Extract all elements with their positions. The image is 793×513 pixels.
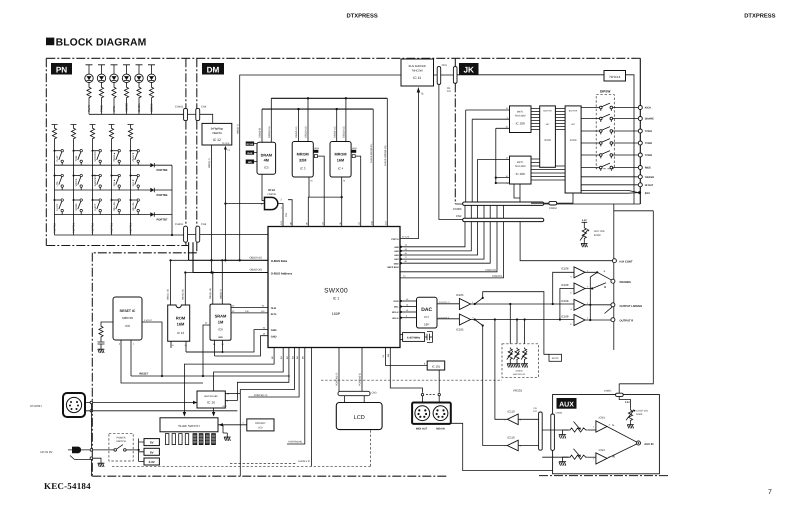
DM board label xyxy=(202,63,224,75)
svg-text:ACC VOL: ACC VOL xyxy=(594,230,606,233)
svg-text:CN303: CN303 xyxy=(453,207,462,211)
LED D2 TRIG with resistor xyxy=(98,65,105,74)
matrix row bus 1 xyxy=(55,164,151,166)
svg-text:BHT451A89: BHT451A89 xyxy=(204,395,218,398)
wire CH4 to IC12 xyxy=(200,114,213,123)
trigger input jack SNARE xyxy=(638,117,642,121)
matrix column PORTB3 resistor xyxy=(109,125,115,128)
phones jack switching xyxy=(585,272,612,288)
switch SW1 PLAY xyxy=(54,150,56,152)
bus verticals into DRAM/MROM xyxy=(262,98,346,142)
svg-text:MASTER VR: MASTER VR xyxy=(513,373,526,376)
svg-text:SEL▼: SEL▼ xyxy=(132,179,135,186)
svg-text:74HC14: 74HC14 xyxy=(609,75,621,79)
svg-text:DIPSW: DIPSW xyxy=(600,90,610,94)
aux level resistor L with ground xyxy=(542,429,568,431)
pin AN3 xyxy=(400,258,403,261)
L signal line xyxy=(471,303,574,305)
svg-text:74HC540: 74HC540 xyxy=(412,69,424,72)
svg-text:GND: GND xyxy=(394,262,399,265)
svg-text:OBA(0-9): OBA(0-9) xyxy=(259,128,262,138)
svg-text:DTXPRESS: DTXPRESS xyxy=(744,12,775,19)
MROM output-enable wires to SWX00 xyxy=(308,177,341,227)
svg-text:MROM: MROM xyxy=(334,153,346,157)
O-BUS junction dots xyxy=(210,259,212,261)
taps to VR101 xyxy=(510,304,524,344)
jack switch contacts after IC105 xyxy=(475,292,549,355)
svg-text:IC110: IC110 xyxy=(507,436,515,440)
svg-text:16M: 16M xyxy=(177,322,185,327)
bus junction dots xyxy=(307,97,309,99)
svg-text:OBA(0-14): OBA(0-14) xyxy=(295,126,298,138)
regulator 5V xyxy=(144,439,159,446)
DIPSW switch 6 xyxy=(581,167,638,169)
svg-text:MROM: MROM xyxy=(297,153,309,157)
DRAM 4M IC5 xyxy=(257,142,276,174)
svg-text:OBD(1-15): OBD(1-15) xyxy=(167,289,170,300)
jumper pins below slide switch xyxy=(166,434,169,445)
ROM 16M IC13 xyxy=(168,305,190,341)
svg-text:OBD(0-7): OBD(0-7) xyxy=(220,289,223,299)
svg-text:5V: 5V xyxy=(150,441,154,445)
svg-text:START/S: START/S xyxy=(94,151,97,162)
BLOCK DIAGRAM heading xyxy=(46,38,54,46)
svg-text:GND: GND xyxy=(271,335,277,338)
trigger input 9/10 stereo pair xyxy=(581,190,639,193)
svg-text:CN802: CN802 xyxy=(604,389,612,392)
svg-text:PORTB5: PORTB5 xyxy=(157,169,168,172)
JK board outline right edge with jacks xyxy=(639,58,641,204)
multiplexer IC209 (upper) xyxy=(510,106,532,133)
svg-text:202: 202 xyxy=(447,90,452,93)
LED D6 SONG with resistor xyxy=(148,65,155,74)
svg-text:OBD(0-15): OBD(0-15) xyxy=(305,126,308,138)
svg-text:BLOCK DIAGRAM: BLOCK DIAGRAM xyxy=(56,37,147,48)
svg-text:6.4576MHz: 6.4576MHz xyxy=(407,337,421,340)
bus buffer IC11 xyxy=(401,59,434,86)
trigger input jack CRASH xyxy=(581,176,638,178)
tap to AUX IC110 (R) xyxy=(495,320,507,420)
regulator 5V (2) xyxy=(144,448,159,455)
DC IN 9V plug xyxy=(72,447,81,454)
connector CH401 (PN, top) xyxy=(184,108,188,120)
LED D1 PLAY with resistor xyxy=(86,65,93,74)
trigger input jack RIDE xyxy=(638,166,642,170)
O-BUS Address wire xyxy=(193,242,268,272)
pin AN6 xyxy=(400,245,403,248)
svg-text:PORTB(2-4): PORTB(2-4) xyxy=(254,394,267,397)
wire DRAM to AND gate xyxy=(262,174,265,200)
svg-text:PO/T-S: PO/T-S xyxy=(391,238,399,241)
board outline chain top (PN/DM/JK) xyxy=(46,57,640,59)
wire IC12 clock T1 to AND gate and O-BUS xyxy=(225,149,264,260)
svg-text:IC 13: IC 13 xyxy=(177,331,185,335)
svg-text:SRAM: SRAM xyxy=(215,314,227,319)
output R wire xyxy=(585,319,611,321)
svg-text:DTXPRESS: DTXPRESS xyxy=(347,12,378,19)
svg-text:SHIFT: SHIFT xyxy=(94,203,97,211)
memory address bus (upper) xyxy=(271,97,387,99)
MUTE block xyxy=(549,354,562,361)
wire CN1 down to CN303 xyxy=(439,84,463,219)
rotary encoder IC9 xyxy=(247,419,274,431)
reset IC M80790 IC8 xyxy=(113,297,142,340)
POWER SWITCH xyxy=(109,433,133,461)
svg-text:PORTB3: PORTB3 xyxy=(111,222,114,233)
svg-text:CN2: CN2 xyxy=(456,214,462,218)
IC209 input wires from CN303 xyxy=(466,110,510,202)
svg-text:B 50K: B 50K xyxy=(636,413,643,416)
master volume VR101 xyxy=(502,344,539,378)
svg-text:OBA(0-14): OBA(0-14) xyxy=(333,126,336,138)
wire IC11 output down to SWX00 pin with arrow xyxy=(400,92,418,239)
svg-text:IC9: IC9 xyxy=(258,426,263,429)
svg-text:BUFFER: BUFFER xyxy=(569,109,578,112)
DIPSW switch 5 xyxy=(581,154,638,156)
trigger input jack KICK xyxy=(638,106,642,110)
vertical service wire xyxy=(90,404,92,449)
svg-text:S-W/M-V R: S-W/M-V R xyxy=(298,460,310,463)
svg-text:CRASH: CRASH xyxy=(645,176,654,179)
switch SW13 SHIFT xyxy=(92,199,94,201)
DM board outline bottom xyxy=(92,475,448,477)
svg-text:IC 1: IC 1 xyxy=(333,297,340,301)
aux level resistor R with ground xyxy=(542,456,568,458)
svg-text:DRAM: DRAM xyxy=(261,153,272,157)
svg-text:TO HOST: TO HOST xyxy=(30,404,43,408)
svg-text:32M: 32M xyxy=(299,158,306,162)
svg-text:IC7: IC7 xyxy=(424,315,429,319)
wire IC12 to O-BUS verticals xyxy=(211,145,213,273)
svg-text:3.3V: 3.3V xyxy=(582,219,587,222)
switch SW5 PAGE&#9660; xyxy=(130,150,132,152)
switch SW12 SONG xyxy=(73,199,75,201)
power section dashed boundary xyxy=(112,430,371,467)
switch SW11 CLICK xyxy=(54,199,56,201)
svg-text:BUFFER: BUFFER xyxy=(543,109,552,112)
trimmer 524.6 xyxy=(523,348,527,361)
svg-text:JK: JK xyxy=(463,65,474,74)
svg-text:3.3V: 3.3V xyxy=(149,460,155,464)
svg-text:IC105: IC105 xyxy=(456,293,464,297)
svg-text:MX/TL: MX/TL xyxy=(517,161,524,164)
svg-text:PORTB6: PORTB6 xyxy=(157,194,168,197)
svg-text:RIDE: RIDE xyxy=(645,167,651,170)
svg-text:SEL▲: SEL▲ xyxy=(113,179,116,186)
PN board label xyxy=(51,63,72,75)
pin AN4 xyxy=(400,254,403,257)
connector CN601 xyxy=(551,414,555,450)
trimmer 517 xyxy=(515,348,519,361)
AUX label xyxy=(557,398,577,409)
svg-text:N: N xyxy=(343,180,345,183)
svg-text:IC108: IC108 xyxy=(561,267,569,271)
MROM32 chip-select stub xyxy=(314,150,319,153)
memory data bus (lower) xyxy=(262,108,373,110)
svg-text:DOL: DOL xyxy=(394,306,399,309)
svg-text:O-BUS Address: O-BUS Address xyxy=(271,272,293,276)
LED D4 VOICE with resistor xyxy=(123,65,130,74)
diode row 2 xyxy=(150,188,154,192)
svg-text:PLAY: PLAY xyxy=(87,105,91,112)
PHONES jack xyxy=(611,279,615,283)
svg-text:RCAS: RCAS xyxy=(247,143,254,146)
svg-text:IC 209: IC 209 xyxy=(516,172,525,176)
svg-text:OBD(0-15): OBD(0-15) xyxy=(249,256,262,259)
svg-text:IC14: IC14 xyxy=(268,188,275,192)
svg-text:R: R xyxy=(604,286,606,289)
svg-text:SONG: SONG xyxy=(75,203,78,210)
TO HOST wires xyxy=(85,403,237,411)
svg-text:IC5: IC5 xyxy=(264,166,269,170)
svg-text:74HC4052: 74HC4052 xyxy=(515,165,527,168)
svg-text:SWITCH: SWITCH xyxy=(116,440,126,443)
svg-text:IC 101: IC 101 xyxy=(432,364,441,368)
JK board label xyxy=(459,63,479,75)
matrix row bus 3 xyxy=(55,214,151,216)
DRAM control stubs RAS/CAS/WE xyxy=(246,142,254,146)
switch SW14 VALUE+ xyxy=(111,199,113,201)
wire from output section to CN802 and click pot xyxy=(614,211,654,409)
svg-text:ROM: ROM xyxy=(352,147,357,150)
svg-text:SNARE: SNARE xyxy=(645,118,654,121)
PORTC0 / PORTC1 wires xyxy=(400,205,504,278)
JK board outline bottom xyxy=(455,203,640,205)
svg-text:TOM1: TOM1 xyxy=(645,130,653,133)
svg-text:SLIDE SWITCH: SLIDE SWITCH xyxy=(178,424,199,428)
svg-text:IC 3: IC 3 xyxy=(300,166,306,170)
LED D5 CLICK with resistor xyxy=(136,65,143,74)
connector CN202 xyxy=(453,67,457,84)
svg-text:SWX00: SWX00 xyxy=(324,287,348,294)
svg-text:IC 209: IC 209 xyxy=(516,122,525,126)
IC209 bottom wires to CN304 xyxy=(514,184,520,202)
svg-text:SONG: SONG xyxy=(150,103,154,112)
svg-text:TRIG: TRIG xyxy=(75,156,78,162)
svg-text:AN4: AN4 xyxy=(394,254,399,257)
svg-text:VOICE: VOICE xyxy=(75,178,78,186)
bus drops to SWX00 S-BUS pins xyxy=(373,98,387,226)
svg-text:IC105: IC105 xyxy=(456,328,464,332)
trigger input jack TOM3 xyxy=(638,153,642,157)
svg-text:S-BUS DATA(0-15): S-BUS DATA(0-15) xyxy=(384,145,387,166)
H.H CONT jack xyxy=(520,204,614,350)
SRAM bottom pin wires xyxy=(186,340,223,356)
svg-text:IC8: IC8 xyxy=(125,324,130,328)
switch SW10 SEL&#9660; xyxy=(130,175,132,177)
svg-text:PORTA(0-2): PORTA(0-2) xyxy=(358,373,361,386)
svg-text:PORTB(4-B): PORTB(4-B) xyxy=(289,441,303,444)
wires between buffers xyxy=(555,109,565,130)
crystal 6.4576MHz xyxy=(400,335,403,340)
svg-text:IC501: IC501 xyxy=(599,417,606,420)
svg-text:B 50K: B 50K xyxy=(594,234,601,237)
PN board outline left/bottom/right xyxy=(46,58,188,245)
/RESET wire xyxy=(131,375,290,377)
svg-text:SAVE/ENT: SAVE/ENT xyxy=(94,174,97,187)
AND gate output to SWX00 xyxy=(278,200,292,227)
service wire loop right of MIDI xyxy=(451,423,553,470)
R signal line xyxy=(471,319,574,321)
DIPSW switch 1 xyxy=(581,107,638,109)
O-BUS drops to ROM xyxy=(171,260,186,305)
connector CN102 xyxy=(539,412,543,450)
svg-text:PLAY: PLAY xyxy=(56,155,59,162)
connector CH401 (PN, bottom) xyxy=(184,226,188,242)
svg-text:3.3V: 3.3V xyxy=(625,401,630,404)
JK board outline left xyxy=(454,58,456,204)
svg-text:PORTB1: PORTB1 xyxy=(73,222,76,233)
connector CN802 xyxy=(616,393,624,396)
svg-text:MIDI OUT: MIDI OUT xyxy=(416,427,428,430)
OUTPUT R jack xyxy=(611,318,615,322)
svg-text:3 VOUT: 3 VOUT xyxy=(144,319,153,322)
svg-text:AUX IN: AUX IN xyxy=(644,443,653,446)
svg-text:A 50KΩ: A 50KΩ xyxy=(515,370,523,373)
svg-text:OBD(0-15): OBD(0-15) xyxy=(268,126,271,138)
AUX IN jack xyxy=(636,441,640,445)
reset RC network xyxy=(101,322,113,325)
svg-text:VALUE-: VALUE- xyxy=(132,202,135,211)
svg-text:O-BUS Data: O-BUS Data xyxy=(271,259,288,263)
svg-text:H.H CONT: H.H CONT xyxy=(620,261,633,264)
svg-text:UTIL: UTIL xyxy=(56,180,59,186)
svg-text:MX/TL: MX/TL xyxy=(517,111,524,114)
svg-text:PN: PN xyxy=(56,65,67,74)
svg-text:OUTPUT L/MONO: OUTPUT L/MONO xyxy=(620,305,643,308)
trigger input jack TOM1 xyxy=(638,129,642,133)
op-amp IC105 (R) xyxy=(459,314,470,325)
MROM 16M IC4 xyxy=(330,142,351,178)
DAC data pins xyxy=(400,300,403,303)
svg-text:IC208: IC208 xyxy=(570,139,577,142)
connector CN3 xyxy=(338,391,370,395)
svg-text:M80790: M80790 xyxy=(122,316,133,320)
multiplexer IC209 (lower) xyxy=(510,156,532,184)
LED bus wire to CH401 xyxy=(89,113,184,115)
OUTPUT L/MONO jack xyxy=(611,303,615,307)
svg-text:D-FlipFlop: D-FlipFlop xyxy=(211,128,224,131)
regulator 3.3V xyxy=(144,458,159,465)
trigger input jack HI HAT xyxy=(581,184,638,186)
svg-text:CLICK VOL: CLICK VOL xyxy=(636,409,649,412)
matrix column PORTB1 resistor xyxy=(71,125,77,128)
svg-text:CH401: CH401 xyxy=(175,223,184,226)
ROM bottom pin wires xyxy=(171,341,186,352)
connector CN1 xyxy=(437,67,441,85)
MROM16 chip-select stub xyxy=(351,150,356,153)
svg-text:ROM: ROM xyxy=(176,316,186,321)
main LSI SWX00 IC1 xyxy=(268,227,400,348)
svg-text:DAC: DAC xyxy=(421,307,432,313)
svg-text:CN1: CN1 xyxy=(442,64,448,67)
connector CH4 (DM, top) xyxy=(196,108,200,120)
connector CN303 xyxy=(463,202,544,205)
svg-text:MUTE: MUTE xyxy=(552,357,559,360)
svg-text:PAGE▼: PAGE▼ xyxy=(132,152,135,161)
DAC out wires xyxy=(437,304,459,319)
LCD module xyxy=(345,396,365,403)
jack board chain bottom right xyxy=(539,475,669,477)
svg-text:DOO: DOO xyxy=(394,300,399,303)
svg-text:IC205: IC205 xyxy=(544,139,551,142)
trigger input jack TOM2 xyxy=(638,141,642,145)
diode row 3 xyxy=(150,212,154,216)
svg-text:RESET IC: RESET IC xyxy=(120,309,136,313)
matrix row bus 2 xyxy=(55,189,151,191)
svg-text:PORTB4: PORTB4 xyxy=(130,222,133,233)
svg-text:WE: WE xyxy=(248,161,252,164)
svg-text:/RESET: /RESET xyxy=(139,373,149,376)
svg-text:16M: 16M xyxy=(337,158,344,162)
DM board outline left edge and jog to power area xyxy=(92,58,197,476)
svg-text:1M: 1M xyxy=(218,320,224,325)
SLIDE SWITCH xyxy=(160,418,218,432)
svg-text:VOICE: VOICE xyxy=(125,103,129,112)
switch SW8 SAVE/ENT xyxy=(92,175,94,177)
svg-text:GND: GND xyxy=(271,329,277,332)
svg-text:PORTB0: PORTB0 xyxy=(54,222,57,233)
option dashed line to VR101 xyxy=(321,379,502,381)
switch SW3 START/S xyxy=(92,150,94,152)
svg-text:OBD(0-7): OBD(0-7) xyxy=(237,124,240,134)
svg-text:OUTPUT R: OUTPUT R xyxy=(620,320,634,323)
MROM 32M IC3 xyxy=(292,142,313,178)
svg-text:IC110: IC110 xyxy=(507,409,515,413)
svg-text:OBA(0-14): OBA(0-14) xyxy=(209,288,212,299)
svg-text:7: 7 xyxy=(768,489,772,496)
matrix column PORTB4 resistor xyxy=(128,125,134,128)
svg-text:PAGE▲: PAGE▲ xyxy=(113,152,116,161)
svg-text:CH4: CH4 xyxy=(201,223,207,226)
svg-text:HI HAT: HI HAT xyxy=(645,184,654,187)
svg-text:IC 11: IC 11 xyxy=(413,76,421,80)
svg-text:TRIG: TRIG xyxy=(100,104,104,112)
svg-text:IC108: IC108 xyxy=(561,299,569,303)
svg-text:74HC4052: 74HC4052 xyxy=(515,115,527,118)
svg-text:OBA(0-20): OBA(0-20) xyxy=(250,269,263,272)
svg-text:IC 10: IC 10 xyxy=(207,401,215,405)
SRAM interface wires CLB/FLTs xyxy=(228,308,268,313)
IC101 midi driver xyxy=(427,361,445,370)
svg-text:REFP EGH: REFP EGH xyxy=(387,266,399,269)
svg-text:PHONES: PHONES xyxy=(620,281,632,284)
output L wire xyxy=(585,305,612,314)
resistor network buffer IC208 xyxy=(565,106,581,193)
svg-text:N: N xyxy=(311,180,313,183)
svg-text:ROM: ROM xyxy=(314,147,319,150)
svg-text:AN6: AN6 xyxy=(394,246,399,249)
serial driver IC10 xyxy=(197,391,225,408)
svg-text:PORTC0: PORTC0 xyxy=(486,269,497,272)
svg-text:IC108: IC108 xyxy=(561,283,569,287)
AND gate IC14 74HC08 xyxy=(265,197,278,209)
switch SW4 PAGE&#9650; xyxy=(111,150,113,152)
svg-text:BCLK: BCLK xyxy=(393,317,399,320)
TO HOST connector xyxy=(63,393,85,417)
svg-text:IC108: IC108 xyxy=(561,314,569,318)
DIPSW switch 4 xyxy=(581,142,638,144)
matrix column PORTB2 resistor xyxy=(90,125,96,128)
pin GND xyxy=(400,262,403,265)
svg-text:IC501: IC501 xyxy=(599,449,606,452)
LED D3 UTIL with resistor xyxy=(111,65,118,74)
connector CH4 (DM, bottom) xyxy=(196,226,200,242)
trimmer 510.3 xyxy=(508,348,512,361)
svg-text:AN5: AN5 xyxy=(394,250,399,253)
connector CN2 xyxy=(463,218,544,221)
DIP switch block DIPSW xyxy=(596,95,614,169)
